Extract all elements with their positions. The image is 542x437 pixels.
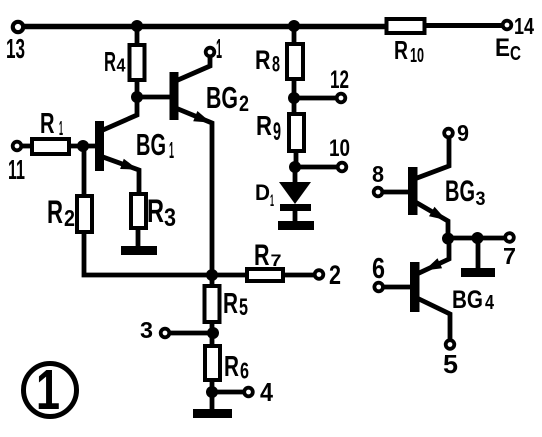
svg-text:6: 6 [240, 358, 249, 384]
svg-text:7: 7 [271, 251, 282, 270]
svg-text:R: R [104, 46, 116, 77]
svg-text:3: 3 [164, 204, 176, 232]
svg-text:10: 10 [410, 45, 424, 67]
svg-text:D: D [255, 180, 270, 205]
svg-text:3: 3 [476, 189, 486, 210]
svg-text:2: 2 [64, 205, 75, 231]
svg-text:4: 4 [260, 377, 273, 407]
svg-text:BG: BG [452, 286, 483, 314]
svg-text:C: C [510, 43, 521, 65]
svg-text:9: 9 [457, 120, 469, 146]
svg-text:1: 1 [216, 33, 222, 64]
svg-text:BG: BG [136, 127, 166, 162]
svg-text:R: R [394, 35, 408, 65]
svg-text:R: R [256, 110, 272, 141]
svg-text:2: 2 [329, 260, 341, 290]
svg-text:2: 2 [239, 91, 249, 116]
svg-text:5: 5 [443, 349, 458, 379]
svg-text:9: 9 [273, 118, 281, 146]
svg-text:E: E [495, 34, 510, 62]
svg-text:R: R [223, 288, 238, 320]
svg-text:5: 5 [239, 294, 248, 321]
svg-text:R: R [40, 108, 55, 140]
svg-text:R: R [255, 45, 271, 75]
svg-text:14: 14 [514, 13, 534, 39]
svg-text:R: R [224, 351, 239, 383]
svg-text:R: R [254, 239, 270, 272]
svg-text:R: R [147, 193, 164, 229]
svg-text:BG: BG [445, 175, 475, 208]
svg-text:4: 4 [117, 56, 126, 76]
svg-text:8: 8 [372, 161, 384, 187]
svg-text:3: 3 [140, 317, 153, 343]
svg-text:1: 1 [169, 137, 174, 163]
svg-text:4: 4 [485, 292, 495, 314]
svg-text:R: R [47, 194, 63, 230]
svg-text:8: 8 [272, 52, 280, 77]
svg-text:1: 1 [36, 358, 60, 422]
svg-text:12: 12 [330, 66, 349, 94]
svg-text:BG: BG [206, 80, 238, 115]
svg-text:1: 1 [59, 118, 63, 140]
svg-text:13: 13 [6, 33, 25, 64]
svg-text:10: 10 [329, 135, 350, 162]
svg-text:7: 7 [503, 243, 516, 269]
svg-text:11: 11 [8, 154, 25, 185]
svg-text:1: 1 [270, 191, 274, 210]
svg-text:6: 6 [372, 253, 385, 285]
